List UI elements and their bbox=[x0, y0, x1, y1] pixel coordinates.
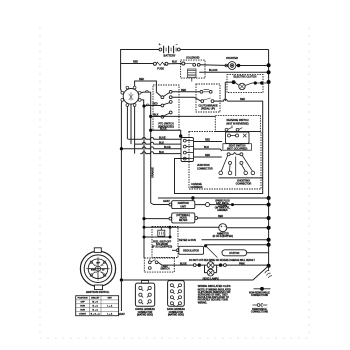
wire ignition bottom drop 2 bbox=[130, 104, 132, 144]
svg-text:SOLENOID: SOLENOID bbox=[186, 55, 199, 59]
node riser x150.7 row4 bbox=[149, 115, 152, 118]
svg-text:BLK: BLK bbox=[204, 146, 209, 149]
wire starter to right rail bbox=[236, 65, 269, 67]
wire junction to seat 2 bbox=[194, 149, 223, 151]
connector pair on y92 wire bbox=[145, 91, 148, 92]
node right rail at starter bbox=[267, 63, 271, 67]
svg-text:(MATING SIDE): (MATING SIDE) bbox=[168, 314, 184, 317]
svg-text:ORANGE: ORANGE bbox=[151, 167, 154, 178]
svg-text:CONNECTIONS: CONNECTIONS bbox=[251, 295, 269, 297]
svg-text:(NOT IN REVERSE): (NOT IN REVERSE) bbox=[226, 123, 248, 126]
node bus y198 right rail bbox=[267, 196, 271, 200]
node left rail row3 bbox=[120, 147, 123, 150]
battery B1 bbox=[159, 43, 181, 53]
wire solenoid black to right rail bbox=[199, 71, 268, 73]
svg-text:CHOKE HARNESS: CHOKE HARNESS bbox=[135, 308, 155, 311]
wire left long rail from ignition bbox=[120, 101, 123, 280]
wire ignition bottom drop 3 bbox=[134, 106, 136, 153]
seat switch body bbox=[226, 132, 250, 144]
svg-text:GRAY: GRAY bbox=[118, 313, 125, 316]
wire junction to seat 3 bbox=[194, 156, 222, 158]
ignition unit bbox=[151, 198, 195, 209]
ignition switch table bbox=[76, 296, 119, 316]
svg-text:RED: RED bbox=[133, 60, 138, 63]
svg-text:RED: RED bbox=[218, 215, 223, 218]
junction connector bbox=[181, 138, 213, 171]
wire solenoid to starter bbox=[200, 64, 228, 67]
svg-text:REGULATOR: REGULATOR bbox=[183, 249, 199, 253]
reverse switch (not in reverse) bbox=[215, 115, 260, 131]
wire top bus left bbox=[121, 50, 159, 64]
svg-text:B + A: B + A bbox=[93, 308, 99, 311]
wire clutch brake riser bbox=[224, 82, 226, 101]
ignition switch S1 bbox=[121, 86, 141, 106]
svg-text:(PEDAL UP): (PEDAL UP) bbox=[201, 108, 215, 111]
head lamps bbox=[174, 262, 270, 281]
regulator bbox=[172, 246, 217, 258]
wire harness row 4 bbox=[140, 152, 181, 154]
svg-text:LIGHT: LIGHT bbox=[162, 266, 170, 268]
svg-text:BLUE: BLUE bbox=[160, 128, 167, 131]
legend removable bbox=[251, 303, 269, 313]
svg-text:IGNITION SWITCH: IGNITION SWITCH bbox=[86, 290, 109, 294]
wire riser x150.7 down to ignition unit bbox=[150, 92, 152, 203]
svg-text:WIRING INSULATED CLIPS: WIRING INSULATED CLIPS bbox=[198, 284, 231, 288]
svg-text:ELECTRIC CLUTCH: ELECTRIC CLUTCH bbox=[234, 76, 257, 79]
svg-text:B + A: B + A bbox=[93, 305, 99, 308]
dash harness connector bbox=[167, 281, 186, 317]
wire ignition top terminal to bus y81 bbox=[135, 81, 162, 97]
svg-text:RED: RED bbox=[240, 98, 245, 101]
svg-text:HARNESS: HARNESS bbox=[191, 186, 203, 189]
svg-text:FUEL SHUT-OFF: FUEL SHUT-OFF bbox=[153, 241, 172, 243]
legend non-removable bbox=[249, 287, 270, 297]
wire left rail upper segment to ignition terminal bbox=[121, 64, 122, 92]
wire regulator top bbox=[206, 244, 269, 246]
wire top bus right from battery to right rail bbox=[180, 49, 268, 51]
ammeter bbox=[170, 224, 271, 239]
svg-text:SOLENOID: SOLENOID bbox=[156, 244, 168, 246]
svg-text:POSITION: POSITION bbox=[78, 298, 88, 300]
svg-text:STARTER: STARTER bbox=[226, 56, 238, 60]
stator bbox=[222, 250, 269, 256]
svg-text:STATOR: STATOR bbox=[229, 251, 239, 255]
wire harness row 2 bbox=[135, 142, 181, 144]
wire engine bus y198 bbox=[158, 197, 269, 199]
svg-text:CONNECTIONS: CONNECTIONS bbox=[251, 312, 269, 314]
wire riser x144 down to light switch bbox=[143, 106, 145, 258]
svg-text:SHOULD BE REPLACED TO: SHOULD BE REPLACED TO bbox=[198, 296, 229, 299]
spark plug bbox=[195, 200, 271, 213]
svg-text:(IF SO EQUIPPED): (IF SO EQUIPPED) bbox=[213, 236, 234, 238]
node riser x144 bbox=[142, 104, 145, 107]
svg-text:PINK: PINK bbox=[239, 262, 245, 265]
svg-text:BLUE: BLUE bbox=[180, 262, 187, 265]
svg-text:REMOVABLE: REMOVABLE bbox=[252, 308, 267, 311]
svg-text:DASH HARNESS: DASH HARNESS bbox=[167, 308, 186, 311]
PTO switch (energized) bbox=[153, 85, 179, 130]
wire ignition right to riser x144 bbox=[141, 100, 144, 106]
svg-text:GRAY: GRAY bbox=[163, 200, 170, 203]
charge harness solid box bbox=[175, 159, 263, 194]
svg-text:BLK: BLK bbox=[172, 61, 177, 64]
wire left rail tail bbox=[120, 280, 122, 311]
wire blue y130.2 bbox=[151, 130, 181, 137]
svg-text:OFF: OFF bbox=[81, 302, 86, 304]
fuse F1 bbox=[153, 62, 168, 65]
light switch bbox=[144, 258, 174, 272]
svg-text:ENGINES: ENGINES bbox=[217, 210, 228, 212]
svg-text:FUSE: FUSE bbox=[157, 66, 164, 70]
wire keyed and run bbox=[178, 239, 269, 241]
svg-text:L + A: L + A bbox=[107, 312, 113, 315]
page border dotted left bbox=[39, 28, 41, 338]
wire ignition terminal y92 to riser bbox=[141, 91, 151, 94]
ignition switch key detail bbox=[80, 248, 115, 294]
svg-text:RED: RED bbox=[139, 78, 144, 81]
svg-text:AMMETER: AMMETER bbox=[217, 233, 229, 236]
node junction connector top bbox=[179, 134, 182, 137]
seat switch label box bbox=[223, 144, 252, 151]
page border dotted bottom bbox=[40, 337, 309, 339]
wire harness row 3 bbox=[121, 147, 181, 149]
solenoid relay bbox=[181, 55, 205, 81]
wire clutch brake exit with hop over riser bbox=[214, 99, 227, 101]
node right rail at clutch wire bbox=[267, 80, 271, 84]
ground chassis bbox=[268, 268, 270, 272]
svg-text:NOTE: IF WIRING INSULATED: NOTE: IF WIRING INSULATED bbox=[198, 288, 231, 291]
svg-text:RED: RED bbox=[205, 139, 210, 142]
wire junction to seat 1 bbox=[194, 141, 223, 143]
svg-text:CONNECTOR: CONNECTOR bbox=[169, 312, 184, 314]
svg-text:RUN: RUN bbox=[91, 270, 96, 272]
svg-text:METER: METER bbox=[179, 220, 187, 222]
svg-text:RUN: RUN bbox=[80, 309, 85, 311]
svg-text:BATTERY: BATTERY bbox=[164, 53, 176, 57]
svg-text:RED: RED bbox=[205, 154, 210, 157]
wire fuse feed bbox=[121, 63, 154, 65]
seat harness dashed box bbox=[189, 132, 261, 190]
svg-text:CIRCUIT: CIRCUIT bbox=[91, 298, 100, 300]
svg-text:RUN: RUN bbox=[80, 306, 85, 308]
svg-text:WIRING.: WIRING. bbox=[198, 302, 208, 304]
svg-text:DO NOT CUT RED WIRE OR SEVERE: DO NOT CUT RED WIRE OR SEVERE DAMAGE WIL… bbox=[189, 259, 255, 262]
electric clutch bbox=[227, 75, 269, 93]
wire PTO row4 feed bbox=[151, 115, 161, 117]
seat switch contacts bbox=[219, 153, 255, 177]
wire harness row 1 bbox=[128, 138, 181, 140]
svg-text:BLK: BLK bbox=[154, 114, 159, 117]
node x150.7 y130.2 bbox=[149, 129, 152, 132]
svg-text:SWITCH: SWITCH bbox=[160, 269, 170, 271]
svg-text:CONNECTOR: CONNECTOR bbox=[236, 182, 252, 185]
svg-text:BLACK: BLACK bbox=[209, 69, 218, 72]
wire right rail lower bbox=[268, 198, 270, 266]
wire ground bus y280 bbox=[121, 266, 268, 280]
svg-text:START: START bbox=[79, 312, 87, 315]
svg-text:(IF SO EQUIPPED): (IF SO EQUIPPED) bbox=[152, 247, 173, 249]
hour meter bbox=[142, 213, 270, 223]
svg-text:BLK: BLK bbox=[159, 141, 164, 144]
clutch/brake switch (pedal up) bbox=[196, 84, 220, 112]
starter motor M bbox=[225, 56, 238, 69]
svg-text:(NOT OCCUPIED): (NOT OCCUPIED) bbox=[227, 148, 248, 151]
node left rail at bus bbox=[120, 278, 123, 281]
node bus y198 at ignition unit bbox=[191, 196, 194, 199]
svg-text:L + A: L + A bbox=[107, 305, 113, 308]
wire pto row4 to reverse box bbox=[151, 115, 216, 117]
node starter output bbox=[237, 64, 240, 67]
wire ignition bottom drop 1 bbox=[126, 106, 128, 139]
svg-text:CONNECTOR: CONNECTOR bbox=[197, 167, 213, 170]
wire pto row1 to clutch brake bbox=[172, 91, 200, 93]
svg-text:BLUE: BLUE bbox=[159, 137, 166, 140]
svg-text:BLK: BLK bbox=[159, 151, 164, 154]
wiring clips note bbox=[198, 284, 231, 304]
wire into electric clutch bbox=[225, 81, 232, 83]
wire PTO feed row3 bbox=[144, 105, 161, 108]
svg-text:NON-REMOVABLE: NON-REMOVABLE bbox=[249, 291, 270, 294]
svg-text:UNIT: UNIT bbox=[180, 205, 186, 208]
shorting connector label bbox=[236, 179, 252, 185]
svg-text:BLUE: BLUE bbox=[164, 146, 171, 149]
wire fuse to solenoid bbox=[168, 63, 182, 65]
wire right rail bbox=[268, 50, 270, 199]
svg-text:(MATING SIDE): (MATING SIDE) bbox=[137, 314, 153, 317]
connector pair on pto feed wire bbox=[146, 104, 149, 106]
wire pto row2 to clutch brake row2 bbox=[172, 97, 201, 101]
svg-text:CONNECTOR: CONNECTOR bbox=[138, 312, 153, 314]
fuel shut-off solenoid bbox=[143, 226, 179, 258]
svg-text:RED: RED bbox=[181, 89, 186, 92]
choke harness connector bbox=[135, 281, 155, 317]
svg-text:KEYED & RUN: KEYED & RUN bbox=[179, 239, 196, 242]
svg-text:KEY: KEY bbox=[108, 298, 113, 300]
wire red to box B right riser bbox=[227, 101, 263, 158]
node right rail at black wire bbox=[267, 70, 271, 74]
page border dotted right bbox=[308, 28, 310, 338]
wire under shorting connector bbox=[219, 177, 263, 179]
svg-text:M + G: M + G bbox=[92, 302, 98, 304]
svg-text:B + S + A: B + S + A bbox=[91, 312, 101, 315]
